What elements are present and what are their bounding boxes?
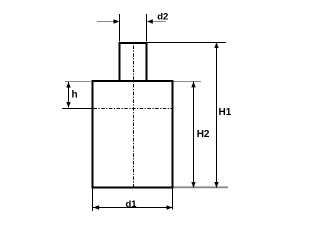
svg-text:d2: d2 — [157, 12, 168, 23]
svg-text:H1: H1 — [219, 107, 232, 118]
svg-text:H2: H2 — [197, 129, 210, 140]
svg-text:h: h — [72, 90, 78, 101]
svg-text:d1: d1 — [125, 199, 137, 210]
